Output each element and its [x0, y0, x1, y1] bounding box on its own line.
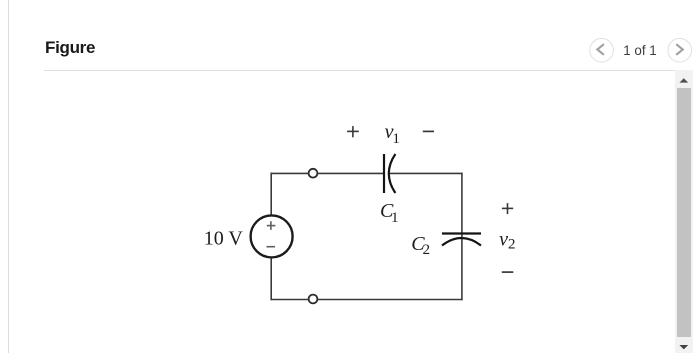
capacitor C1 — [384, 154, 395, 193]
label minus v1 — [423, 130, 434, 132]
svg-text:2: 2 — [423, 241, 431, 258]
label plus v2 — [502, 203, 513, 214]
label plus v1 — [347, 126, 359, 137]
svg-text:10 V: 10 V — [204, 228, 244, 250]
wire top-right segment — [389, 172, 463, 174]
svg-text:1: 1 — [391, 209, 399, 226]
node terminal bottom — [309, 295, 318, 304]
scrollbar down arrow — [675, 340, 693, 353]
scrollbar track — [675, 70, 693, 353]
prev page button — [590, 38, 614, 62]
next page button — [668, 38, 692, 62]
scrollbar up arrow — [675, 70, 693, 90]
svg-text:1: 1 — [392, 130, 400, 147]
svg-text:v: v — [499, 229, 508, 251]
panel left border — [8, 0, 9, 353]
scrollbar thumb — [677, 88, 691, 337]
wire top-left segment — [271, 172, 384, 174]
voltage source V1 10 V — [251, 215, 293, 257]
wire right — [461, 173, 463, 301]
title Figure — [45, 38, 95, 58]
header separator — [44, 70, 675, 71]
svg-text:2: 2 — [508, 236, 516, 253]
pager nav — [585, 34, 697, 66]
node terminal top — [309, 169, 318, 178]
capacitor C2 — [442, 234, 481, 246]
wire bottom — [271, 299, 463, 301]
wire left upper — [270, 173, 272, 216]
page count 1 of 1 — [600, 43, 680, 58]
wire left lower — [270, 258, 272, 301]
label minus v2 — [502, 271, 514, 273]
